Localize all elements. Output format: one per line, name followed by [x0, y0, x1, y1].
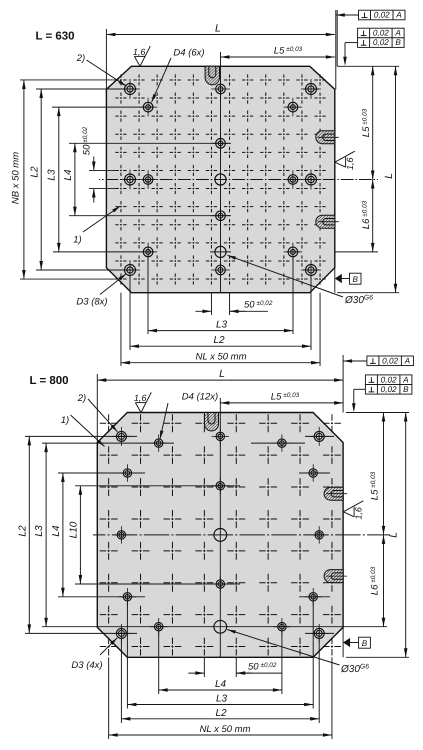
- plate 1 clamping slot top edge: [205, 66, 219, 84]
- plate 2 datum B: [343, 638, 350, 647]
- plate 1 datum B: [335, 274, 342, 283]
- svg-text:L2: L2: [213, 335, 225, 346]
- plate 1 surface finish top: [134, 56, 140, 66]
- svg-text:L4: L4: [63, 169, 74, 181]
- svg-text:0,02: 0,02: [373, 38, 389, 47]
- svg-text:L: L: [215, 22, 221, 34]
- svg-text:D4 (12x): D4 (12x): [182, 392, 218, 403]
- plate 1 dimension NB x 50 mm left: [23, 80, 25, 279]
- svg-text:1,6: 1,6: [345, 157, 355, 170]
- svg-text:D3 (4x): D3 (4x): [71, 660, 102, 671]
- plate 2 hole O30 G6 centre: [214, 529, 227, 542]
- svg-text:0,02: 0,02: [373, 29, 389, 38]
- plate 1 dimension L5 right: [372, 66, 374, 179]
- svg-text:B: B: [362, 639, 368, 648]
- svg-text:L: L: [219, 368, 225, 380]
- svg-text:NL x 50 mm: NL x 50 mm: [195, 352, 246, 363]
- svg-text:L2: L2: [30, 166, 41, 178]
- plate 2 dimension L4 left: [62, 473, 64, 597]
- plate 1 FCF perpendicularity A: [359, 10, 406, 20]
- svg-text:A: A: [395, 11, 402, 20]
- plate 2 extension and centre lines: [25, 435, 137, 437]
- plate 1 grid of 50mm crosses: [120, 74, 122, 284]
- svg-text:D4 (6x): D4 (6x): [173, 48, 204, 59]
- svg-text:1): 1): [73, 235, 81, 246]
- plate 2 dimension L5 top: [220, 402, 343, 404]
- svg-text:L3: L3: [216, 320, 228, 331]
- svg-text:1,6: 1,6: [133, 47, 146, 57]
- svg-text:1,6: 1,6: [134, 393, 147, 403]
- svg-text:A: A: [394, 29, 401, 38]
- plate 2 surface finish right: [343, 512, 354, 517]
- plate 2 grid of 50mm crosses: [108, 414, 110, 655]
- svg-text:B: B: [403, 385, 409, 394]
- plate 2 dimension L6 right: [383, 535, 385, 627]
- plate 2 dimension L3 bottom: [127, 704, 313, 706]
- svg-text:L3: L3: [216, 694, 228, 705]
- plate 1 clamping slot right edge lower: [316, 215, 335, 228]
- plate 1 FCF perpendicularity A B stack: [358, 28, 405, 38]
- plate 1 holes D3 8x counterbored: [125, 84, 136, 95]
- plate 1 dimension L right: [395, 66, 397, 292]
- plate 1 dimension L3 bottom: [148, 330, 293, 332]
- plate 2 holes D4 12x: [155, 439, 163, 447]
- plate 1: base plate L=630: [106, 66, 334, 292]
- svg-text:0,02: 0,02: [381, 385, 397, 394]
- svg-text:L = 800: L = 800: [29, 375, 68, 387]
- svg-text:L: L: [387, 532, 399, 538]
- plate 1 dimension L3 left: [58, 107, 60, 252]
- plate 1 extension and centre lines: [36, 88, 137, 90]
- plate 2 dimension L3 left: [45, 443, 47, 627]
- svg-text:2): 2): [77, 393, 86, 404]
- svg-text:L4: L4: [215, 679, 227, 690]
- svg-text:D3 (8x): D3 (8x): [76, 297, 107, 308]
- plate 1 dimension 50 left: [93, 156, 95, 170]
- svg-text:L2: L2: [18, 525, 29, 537]
- plate 2 dimension L10 left: [79, 486, 81, 584]
- svg-text:L2: L2: [215, 708, 227, 719]
- svg-text:1,6: 1,6: [354, 507, 364, 520]
- plate 2 dimension L2 bottom: [121, 718, 319, 720]
- plate 1 dimension L5 top: [221, 56, 335, 58]
- svg-text:B: B: [395, 38, 401, 47]
- plate 2 hole O30 G6 lower: [214, 620, 227, 633]
- plate 1 holes D4 6x: [216, 84, 226, 94]
- svg-text:NB x 50 mm: NB x 50 mm: [11, 152, 22, 204]
- plate 1 hole O30 G6 centre: [215, 174, 226, 185]
- svg-text:B: B: [353, 275, 359, 284]
- plate 1 dimension NL x 50 mm bottom: [121, 362, 320, 364]
- plate 1 dimension L2 bottom: [130, 345, 311, 347]
- plate 2 clamping slot top edge: [205, 413, 219, 432]
- plate 1 clamping slot right edge upper: [316, 131, 335, 144]
- plate 2 dimension NL x 50 mm bottom: [109, 734, 332, 736]
- plate 2 FCF perpendicularity A: [367, 356, 414, 366]
- svg-text:L: L: [383, 173, 395, 179]
- svg-text:L10: L10: [69, 521, 80, 538]
- svg-text:A: A: [404, 356, 411, 365]
- plate 2 dimension L5 right: [383, 413, 385, 535]
- plate 2 dimension L right: [405, 413, 407, 658]
- svg-text:1): 1): [61, 415, 69, 426]
- plate 2 dimension L top: [97, 379, 343, 381]
- plate 1 surface finish right: [335, 162, 346, 167]
- plate 2 dimension L4 bottom: [159, 689, 282, 691]
- plate 1 hole O30 G6 lower: [215, 246, 226, 257]
- plate 2 surface finish top: [135, 403, 141, 413]
- plate 1 dimension L top: [106, 34, 334, 36]
- svg-text:0,02: 0,02: [382, 356, 398, 365]
- svg-text:L3: L3: [34, 525, 45, 537]
- plate 2 FCF perpendicularity A B stack: [365, 375, 412, 385]
- plate 2 holes D3 4x counterbored: [116, 431, 126, 441]
- plate 2: base plate L=800: [97, 413, 343, 658]
- plate 2 clamping slot right edge upper: [324, 487, 343, 500]
- svg-text:2): 2): [76, 53, 85, 64]
- svg-text:L = 630: L = 630: [35, 31, 74, 43]
- plate 2 dimension L2 left: [28, 436, 30, 633]
- svg-text:NL x 50 mm: NL x 50 mm: [199, 724, 250, 735]
- plate 1 dimension L4 left: [74, 143, 76, 215]
- svg-text:A: A: [402, 375, 409, 384]
- svg-text:0,02: 0,02: [381, 375, 397, 384]
- svg-text:L3: L3: [47, 169, 58, 181]
- plate 2 clamping slot right edge lower: [324, 570, 343, 583]
- plate 2 dimension 50 bottom: [188, 672, 204, 674]
- svg-text:L4: L4: [51, 525, 62, 537]
- plate 1 dimension L6 right: [372, 180, 374, 252]
- svg-text:0,02: 0,02: [374, 11, 390, 20]
- plate 1 dimension 50 bottom: [195, 310, 211, 312]
- plate 1 dimension L2 left: [40, 89, 42, 270]
